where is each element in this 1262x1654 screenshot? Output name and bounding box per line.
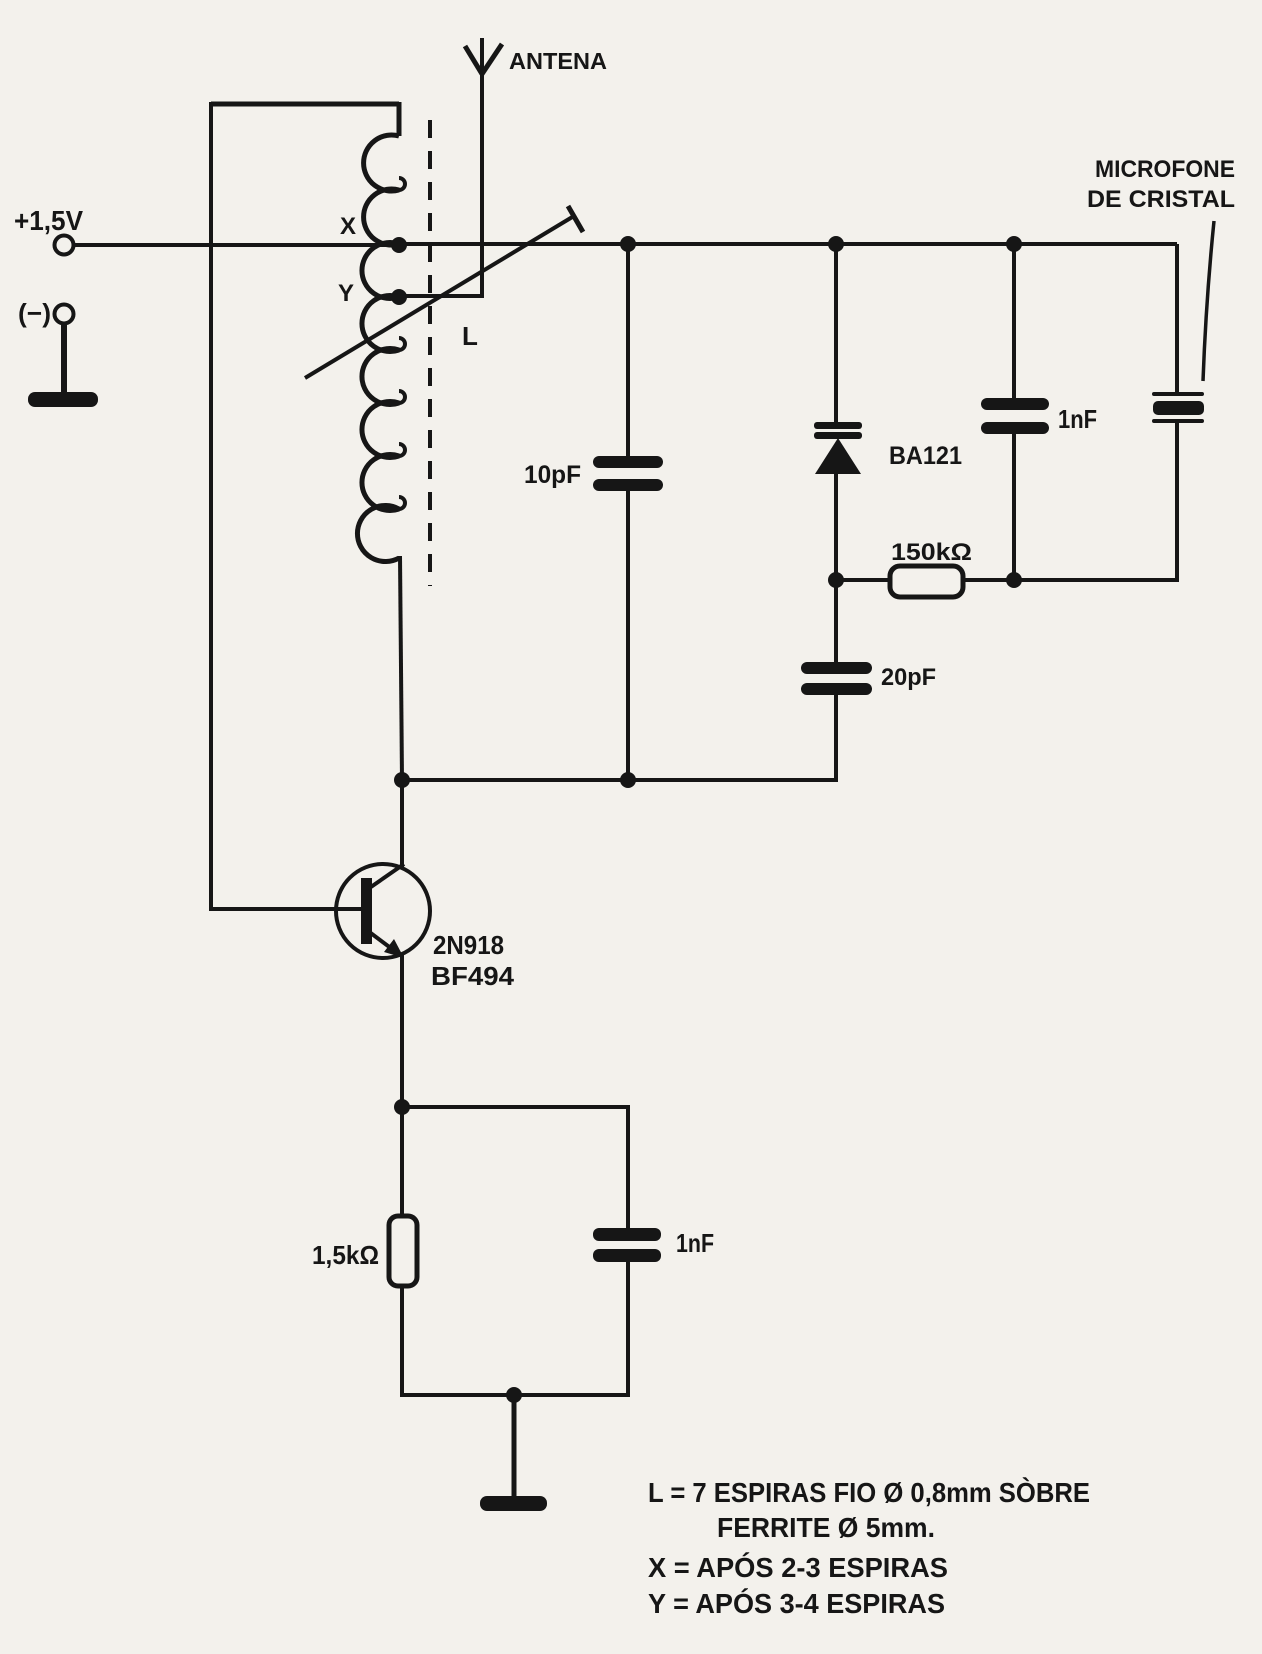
svg-text:150kΩ: 150kΩ bbox=[891, 539, 972, 566]
adjustment arrow through coil bbox=[305, 216, 574, 378]
wire: microphone bottom lead bbox=[1175, 423, 1179, 582]
transistor base bar bbox=[361, 878, 372, 944]
wire: bottom rail bbox=[400, 1393, 630, 1397]
node dot lower rail left bbox=[394, 772, 410, 788]
leader line to microphone bbox=[1203, 221, 1214, 381]
wire: 1nF bottom lead down bbox=[626, 1262, 630, 1395]
microphone element bbox=[1152, 392, 1204, 423]
wire: main top rail from X tap to microphone corner bbox=[399, 242, 1177, 246]
wire: 20pF top lead bbox=[834, 580, 838, 664]
inductor L coil bbox=[357, 102, 399, 562]
wire: 1nF top lead bbox=[1012, 244, 1016, 400]
svg-text:MICROFONE: MICROFONE bbox=[1095, 156, 1235, 183]
svg-text:X = APÓS 2-3 ESPIRAS: X = APÓS 2-3 ESPIRAS bbox=[648, 1552, 948, 1583]
node dot emitter junction bbox=[394, 1099, 410, 1115]
node dot 1nF bottom bbox=[1006, 572, 1022, 588]
svg-text:20pF: 20pF bbox=[881, 664, 936, 691]
wire: base lead bbox=[209, 907, 362, 911]
svg-text:+1,5V: +1,5V bbox=[14, 205, 83, 236]
node dot 1nF top bbox=[1006, 236, 1022, 252]
wire: coil bottom to collector junction bbox=[400, 556, 402, 780]
wire: +1,5V rail to coil tap X bbox=[74, 243, 399, 247]
antenna symbol bbox=[465, 44, 502, 74]
resistor 150k bbox=[890, 566, 963, 597]
wire: left feedback vertical bbox=[209, 102, 213, 911]
wire: 20pF bottom lead and lower rail bbox=[402, 695, 836, 780]
svg-text:(−): (−) bbox=[18, 298, 51, 328]
wire: (-) terminal to ground bbox=[61, 323, 67, 396]
wire: collector lead bbox=[400, 780, 404, 868]
svg-text:FERRITE Ø 5mm.: FERRITE Ø 5mm. bbox=[717, 1512, 935, 1543]
varactor diode BA121 bbox=[814, 422, 862, 474]
capacitor 10pF bbox=[593, 456, 663, 491]
terminal (-) bbox=[55, 305, 74, 324]
node Y tap dot bbox=[391, 289, 407, 305]
svg-text:ANTENA: ANTENA bbox=[509, 48, 607, 74]
svg-text:L: L bbox=[462, 321, 478, 351]
svg-text:X: X bbox=[340, 213, 356, 240]
wire: emitter lead down bbox=[400, 955, 404, 1107]
wire: 150k right lead to mic corner bbox=[963, 578, 1177, 582]
wire: microphone branch bbox=[1175, 244, 1179, 392]
adjustment arrow tick bbox=[568, 206, 583, 232]
wire: resistor top lead bbox=[400, 1107, 404, 1216]
wire: BA121 branch top bbox=[834, 244, 838, 424]
wire: 10pF branch bottom bbox=[626, 491, 630, 780]
node dot 10pF top bbox=[620, 236, 636, 252]
ferrite core dashed line bbox=[428, 120, 432, 586]
wire: resistor bottom lead bbox=[400, 1286, 404, 1397]
svg-text:BF494: BF494 bbox=[431, 961, 515, 991]
svg-text:BA121: BA121 bbox=[889, 442, 962, 470]
wire: Y tap to antenna bbox=[399, 38, 482, 296]
transistor Q1 circle bbox=[336, 864, 430, 958]
svg-text:1nF: 1nF bbox=[676, 1228, 714, 1258]
node dot BA121 top bbox=[828, 236, 844, 252]
node dot BA121 / 150k bbox=[828, 572, 844, 588]
svg-text:Y: Y bbox=[338, 280, 354, 307]
svg-text:10pF: 10pF bbox=[524, 461, 581, 489]
transistor collector stroke bbox=[368, 864, 404, 889]
ground (battery negative) bbox=[28, 392, 98, 407]
terminal +1,5V bbox=[55, 236, 74, 255]
wire: ground stem bbox=[512, 1395, 517, 1500]
svg-text:2N918: 2N918 bbox=[433, 930, 504, 960]
svg-text:L = 7 ESPIRAS FIO Ø 0,8mm SÒBR: L = 7 ESPIRAS FIO Ø 0,8mm SÒBRE bbox=[648, 1477, 1090, 1508]
node dot lower rail 10pF bbox=[620, 772, 636, 788]
capacitor 1nF (emitter) bbox=[593, 1228, 661, 1262]
wire: 1nF bottom lead bbox=[1012, 434, 1016, 580]
coil nibs bbox=[399, 178, 405, 509]
node X tap dot bbox=[391, 237, 407, 253]
svg-text:1nF: 1nF bbox=[1058, 404, 1097, 434]
transistor emitter stroke bbox=[368, 931, 400, 955]
wire: top loop horizontal bbox=[211, 102, 399, 107]
wire: BA121 to lower node bbox=[834, 474, 838, 580]
node dot ground junction bbox=[506, 1387, 522, 1403]
svg-text:DE CRISTAL: DE CRISTAL bbox=[1087, 186, 1235, 213]
svg-text:1,5kΩ: 1,5kΩ bbox=[312, 1240, 379, 1270]
wire: emitter junction to 1nF branch bbox=[402, 1107, 628, 1230]
transistor emitter arrowhead bbox=[384, 939, 404, 958]
resistor 1,5k bbox=[389, 1216, 417, 1286]
wire: 150k left lead bbox=[836, 578, 890, 582]
ground (bottom) bbox=[480, 1496, 547, 1511]
wire: 10pF branch top bbox=[626, 244, 630, 458]
capacitor 20pF bbox=[801, 662, 872, 695]
svg-text:Y = APÓS 3-4 ESPIRAS: Y = APÓS 3-4 ESPIRAS bbox=[648, 1588, 945, 1619]
capacitor 1nF (top) bbox=[981, 398, 1049, 434]
